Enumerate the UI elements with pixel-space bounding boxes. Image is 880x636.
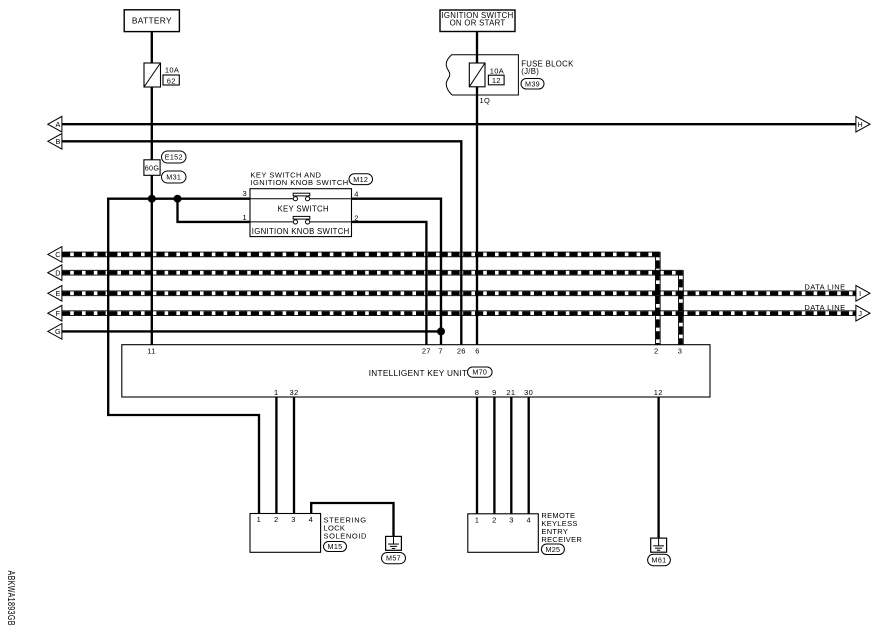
svg-text:62: 62: [167, 76, 176, 85]
svg-text:ON OR START: ON OR START: [450, 19, 506, 28]
svg-text:(J/B): (J/B): [521, 67, 539, 76]
svg-text:21: 21: [506, 388, 515, 397]
svg-text:G: G: [55, 327, 61, 336]
svg-text:27: 27: [422, 346, 431, 355]
svg-text:M25: M25: [545, 545, 560, 554]
svg-text:7: 7: [438, 346, 442, 355]
svg-text:F: F: [56, 309, 61, 318]
svg-text:RECEIVER: RECEIVER: [541, 535, 582, 544]
svg-text:IGNITION KNOB SWITCH: IGNITION KNOB SWITCH: [250, 178, 348, 187]
svg-text:3: 3: [243, 189, 247, 198]
svg-text:1: 1: [274, 388, 278, 397]
svg-text:60G: 60G: [145, 164, 160, 173]
svg-text:32: 32: [290, 388, 299, 397]
svg-text:2: 2: [354, 213, 358, 222]
svg-text:M15: M15: [328, 542, 343, 551]
svg-text:INTELLIGENT KEY UNIT: INTELLIGENT KEY UNIT: [369, 369, 468, 378]
svg-text:SOLENOID: SOLENOID: [324, 531, 368, 540]
svg-text:8: 8: [475, 388, 479, 397]
svg-text:E152: E152: [165, 153, 183, 162]
svg-text:M39: M39: [525, 79, 540, 88]
svg-text:KEY SWITCH: KEY SWITCH: [278, 205, 329, 214]
svg-text:DATA LINE: DATA LINE: [804, 303, 845, 312]
svg-text:1: 1: [475, 515, 479, 524]
svg-text:I: I: [859, 289, 861, 298]
svg-text:10A: 10A: [490, 66, 504, 75]
svg-text:M31: M31: [166, 173, 181, 182]
svg-text:2: 2: [654, 346, 658, 355]
svg-text:6: 6: [475, 346, 479, 355]
svg-text:DATA LINE: DATA LINE: [804, 282, 845, 291]
svg-text:3: 3: [509, 515, 513, 524]
svg-text:B: B: [55, 137, 60, 146]
svg-text:M57: M57: [386, 554, 401, 563]
svg-text:11: 11: [147, 346, 155, 355]
svg-text:A: A: [55, 120, 60, 129]
svg-text:J: J: [858, 309, 862, 318]
svg-text:3: 3: [291, 515, 295, 524]
svg-text:M12: M12: [353, 175, 368, 184]
svg-text:BATTERY: BATTERY: [132, 15, 172, 25]
svg-text:9: 9: [492, 388, 496, 397]
svg-text:1: 1: [257, 515, 261, 524]
svg-text:4: 4: [526, 515, 530, 524]
svg-text:4: 4: [309, 515, 313, 524]
svg-text:30: 30: [524, 388, 533, 397]
svg-text:4: 4: [354, 190, 358, 199]
svg-text:2: 2: [274, 515, 278, 524]
svg-text:3: 3: [678, 346, 682, 355]
svg-text:C: C: [55, 250, 61, 259]
svg-text:D: D: [55, 268, 61, 277]
svg-text:H: H: [858, 120, 864, 129]
svg-text:12: 12: [492, 76, 501, 85]
svg-text:IGNITION KNOB SWITCH: IGNITION KNOB SWITCH: [252, 227, 350, 236]
svg-text:M61: M61: [652, 556, 667, 565]
svg-text:M70: M70: [472, 368, 487, 377]
svg-text:ABKWA1893GB: ABKWA1893GB: [6, 571, 17, 626]
svg-text:12: 12: [654, 388, 663, 397]
svg-text:26: 26: [457, 346, 466, 355]
svg-text:10A: 10A: [165, 66, 179, 75]
svg-text:E: E: [55, 289, 60, 298]
svg-text:1: 1: [243, 213, 247, 222]
svg-text:1Q: 1Q: [480, 96, 491, 105]
svg-text:2: 2: [492, 515, 496, 524]
